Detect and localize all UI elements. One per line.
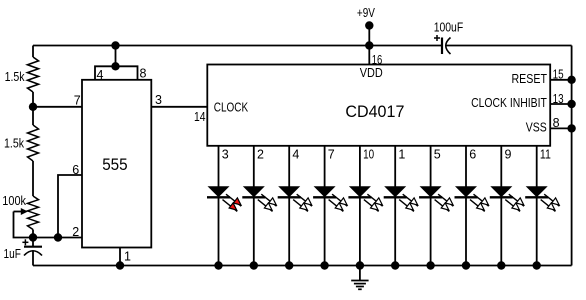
node pot/cap/pin2 junction xyxy=(29,233,37,241)
svg-text:CLOCK: CLOCK xyxy=(214,100,249,114)
wire CD4017 output pin 10 column xyxy=(359,146,361,266)
wire bottom ground rail xyxy=(33,265,572,267)
svg-text:100uF: 100uF xyxy=(434,21,464,35)
svg-text:5: 5 xyxy=(434,148,441,162)
LED D8 xyxy=(455,186,489,211)
svg-text:CLOCK INHIBIT: CLOCK INHIBIT xyxy=(471,96,547,110)
wire CD4017 pin 15 to right rail xyxy=(550,79,571,81)
node ground rail junction LED D7 xyxy=(426,261,434,269)
LED D10 xyxy=(525,186,559,211)
wire 555 pin 6 xyxy=(58,175,82,238)
capacitor C1 1uF polarized xyxy=(4,239,43,261)
wire R2 to potentiometer xyxy=(32,161,34,196)
node bracket junction xyxy=(111,62,119,70)
svg-text:4: 4 xyxy=(292,148,299,162)
svg-text:14: 14 xyxy=(194,110,206,124)
svg-text:4: 4 xyxy=(97,68,104,82)
svg-text:3: 3 xyxy=(222,148,229,162)
wire CD4017 output pin 6 column xyxy=(465,146,467,266)
node ground rail junction LED D9 xyxy=(497,261,505,269)
svg-text:100k: 100k xyxy=(2,194,26,208)
wire wiper to pin2 node xyxy=(14,212,34,238)
node pin1 ground junction xyxy=(116,261,124,269)
wire C1 to bottom rail xyxy=(32,251,34,266)
svg-text:8: 8 xyxy=(553,116,560,130)
wire right vertical rail xyxy=(571,46,573,266)
wire CD4017 output pin 7 column xyxy=(324,146,326,266)
wire 555 pins 4 and 8 bracket xyxy=(95,66,138,80)
svg-text:RESET: RESET xyxy=(512,72,548,86)
resistor R2 1.5k xyxy=(4,125,39,161)
ground xyxy=(351,266,368,290)
wire 555 pin 3 to CD4017 clock xyxy=(151,106,207,108)
node ground rail junction LED D8 xyxy=(462,261,470,269)
svg-text:VDD: VDD xyxy=(360,66,383,80)
wire CD4017 pin 16 stub xyxy=(368,46,370,65)
node right rail pin 13 junction xyxy=(567,100,575,108)
svg-text:555: 555 xyxy=(102,155,128,174)
node pin7 junction xyxy=(29,103,37,111)
node right rail pin 15 junction xyxy=(567,76,575,84)
LED D6 xyxy=(384,186,418,211)
svg-text:1: 1 xyxy=(124,250,131,264)
node supply rail +9V junction xyxy=(365,41,373,49)
svg-text:VSS: VSS xyxy=(526,121,547,135)
svg-text:1: 1 xyxy=(398,148,405,162)
svg-text:13: 13 xyxy=(553,92,564,106)
wire top supply rail left segment xyxy=(33,45,442,47)
LED D9 xyxy=(490,186,524,211)
svg-text:15: 15 xyxy=(553,68,564,82)
svg-text:6: 6 xyxy=(469,148,476,162)
wire CD4017 pin 13 to right rail xyxy=(550,103,571,105)
svg-text:6: 6 xyxy=(72,163,79,177)
wire pot bottom xyxy=(32,230,34,247)
svg-text:2: 2 xyxy=(72,225,79,239)
node ground rail junction LED D1 xyxy=(214,261,222,269)
svg-text:3: 3 xyxy=(155,93,162,107)
node ground rail junction LED D2 xyxy=(250,261,258,269)
LED D1 lit red xyxy=(207,186,241,211)
potentiometer wiper arrow xyxy=(14,208,29,215)
wire left rail top segment xyxy=(32,46,34,58)
wire CD4017 output pin 9 column xyxy=(500,146,502,266)
node ground rail junction LED D10 xyxy=(533,261,541,269)
svg-text:CD4017: CD4017 xyxy=(345,102,404,121)
node pin6 to pin2 junction xyxy=(54,233,62,241)
node ground rail junction LED D4 xyxy=(320,261,328,269)
capacitor C2 100uF polarized xyxy=(434,21,464,55)
wire 555 pin 2 xyxy=(33,237,82,239)
svg-text:1uF: 1uF xyxy=(4,247,22,261)
svg-text:7: 7 xyxy=(74,94,81,108)
node ground rail junction LED D5 xyxy=(356,261,364,269)
svg-text:2: 2 xyxy=(257,148,264,162)
wire top supply rail right segment xyxy=(447,45,572,47)
wire CD4017 pin 8 to right rail xyxy=(550,127,571,129)
wire CD4017 output pin 3 column xyxy=(218,146,220,266)
LED D2 xyxy=(242,186,276,211)
wire CD4017 output pin 1 column xyxy=(394,146,396,266)
resistor R1 1.5k xyxy=(5,57,39,92)
wire supply to bracket xyxy=(115,46,117,67)
node right rail pin 8 junction xyxy=(567,124,575,132)
node ground rail junction LED D3 xyxy=(285,261,293,269)
node supply rail tap for 555 xyxy=(111,41,119,49)
wire 555 pin 1 to ground rail xyxy=(119,248,121,266)
wire CD4017 output pin 2 column xyxy=(253,146,255,266)
wire CD4017 output pin 4 column xyxy=(288,146,290,266)
potentiometer VR1 100k xyxy=(2,194,38,230)
svg-text:10: 10 xyxy=(363,148,374,162)
svg-text:11: 11 xyxy=(540,148,551,162)
IC U1 555 timer xyxy=(82,80,151,248)
node ground rail junction LED D6 xyxy=(391,261,399,269)
power +9V terminal xyxy=(357,6,376,46)
svg-text:16: 16 xyxy=(372,53,383,67)
svg-text:8: 8 xyxy=(140,67,147,81)
wire 555 pin 7 xyxy=(33,106,82,108)
IC U2 CD4017 decade counter xyxy=(207,65,550,146)
svg-text:+9V: +9V xyxy=(357,6,376,20)
LED D5 xyxy=(348,186,382,211)
wire CD4017 output pin 5 column xyxy=(430,146,432,266)
LED D7 xyxy=(419,186,453,211)
LED D3 xyxy=(278,186,312,211)
svg-text:9: 9 xyxy=(505,148,512,162)
wire CD4017 output pin 11 column xyxy=(536,146,538,266)
svg-text:1.5k: 1.5k xyxy=(5,70,26,84)
svg-text:1.5k: 1.5k xyxy=(4,137,25,151)
LED D4 xyxy=(313,186,347,211)
wire R1 to R2 xyxy=(32,92,34,125)
svg-text:7: 7 xyxy=(328,148,335,162)
